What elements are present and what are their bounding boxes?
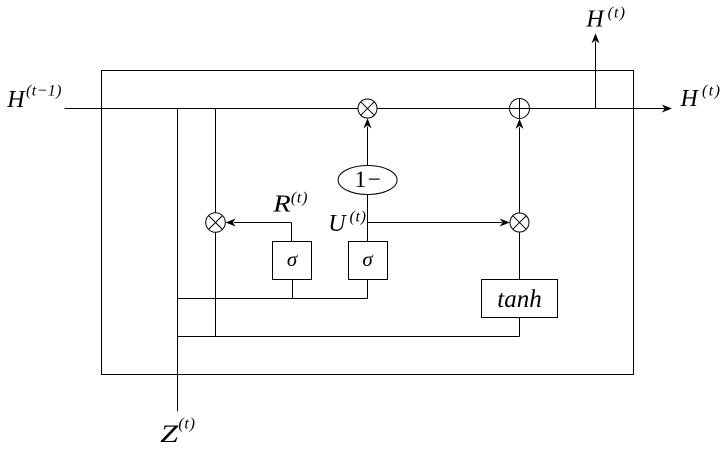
wire sigma box 2 bottom stub — [367, 280, 369, 299]
multiply node left (R gate) circle — [206, 213, 226, 233]
wire main line right segment to output arrow — [530, 108, 665, 110]
wire vertical H branch x=215 lower segment below multiply node — [215, 232, 217, 336]
wire stem from 1-minus oval up to top multiply node — [367, 127, 369, 166]
svg-text:H: H — [680, 86, 700, 112]
svg-text:Z: Z — [160, 421, 179, 448]
svg-text:σ: σ — [287, 247, 299, 271]
wire U gate horizontal arrow stem to right multiply node — [368, 222, 502, 224]
svg-text:(t): (t) — [608, 4, 626, 21]
label H(t-1) input — [6, 83, 62, 113]
svg-text:(t): (t) — [350, 209, 367, 226]
wire corner from R arrow down to sigma box 1 — [291, 223, 293, 242]
arrowhead up into add node — [516, 119, 524, 129]
add node plus vertical stroke — [519, 99, 521, 119]
add node circle — [510, 99, 530, 119]
add node plus horizontal stroke — [510, 108, 530, 110]
svg-text:(t): (t) — [702, 83, 721, 100]
wire from right multiply node up to add node — [519, 127, 521, 213]
svg-text:(t): (t) — [178, 416, 195, 433]
wire R gate arrow stem into left multiply node — [234, 222, 292, 224]
multiply node left X stroke 2 — [209, 216, 223, 230]
arrowhead up into top multiply node — [364, 118, 372, 128]
wire vertical Z branch x=177 — [177, 109, 179, 412]
multiply node right circle — [510, 213, 529, 232]
multiply node right X stroke 2 — [513, 216, 526, 229]
label Z(t) — [160, 416, 195, 448]
tanh box — [482, 280, 558, 318]
wire from right multiply node down to tanh box — [519, 232, 521, 280]
svg-text:(t): (t) — [291, 190, 308, 207]
arrowhead H(t) top output — [592, 33, 600, 43]
arrowhead into right multiply node — [500, 219, 510, 227]
label H(t) right output — [680, 83, 722, 112]
one-minus oval — [338, 166, 397, 195]
arrowhead H(t) right output — [662, 105, 672, 113]
wire H(t-1) main horizontal line left segment — [65, 108, 359, 110]
label U(t) — [328, 209, 367, 238]
multiply node left X stroke 1 — [209, 216, 223, 230]
sigma box 1 (R gate) — [273, 242, 312, 280]
label H(t) top output — [585, 4, 626, 32]
cell boundary box — [102, 71, 634, 375]
multiply node top-center X stroke 1 — [361, 102, 374, 115]
label R(t) — [272, 190, 308, 218]
arrowhead into left multiply node — [226, 219, 236, 227]
wire horizontal bus y=336 to tanh input — [178, 336, 520, 338]
svg-text:1−: 1− — [355, 167, 383, 193]
svg-text:U: U — [328, 211, 347, 237]
svg-text:σ: σ — [362, 247, 374, 271]
multiply node right X stroke 1 — [513, 216, 526, 229]
svg-text:R: R — [272, 192, 291, 218]
svg-text:tanh: tanh — [497, 286, 541, 313]
wire vertical H branch x=215 upper segment — [215, 109, 217, 213]
wire main line between multiply and add nodes — [377, 108, 510, 110]
multiply node top-center circle — [358, 99, 377, 118]
svg-text:H: H — [6, 87, 26, 113]
wire from oval down to sigma box 2 — [367, 195, 369, 242]
svg-text:(t−1): (t−1) — [26, 83, 62, 100]
wire sigma box 1 bottom stub — [292, 280, 294, 299]
wire horizontal bus y=298 feeding sigma gates — [178, 298, 368, 300]
wire vertical to top H(t) output — [595, 42, 597, 109]
wire from tanh box down to bus — [519, 318, 521, 337]
svg-text:H: H — [585, 6, 605, 32]
sigma box 2 (U gate) — [349, 242, 388, 280]
multiply node top-center X stroke 2 — [361, 102, 374, 115]
